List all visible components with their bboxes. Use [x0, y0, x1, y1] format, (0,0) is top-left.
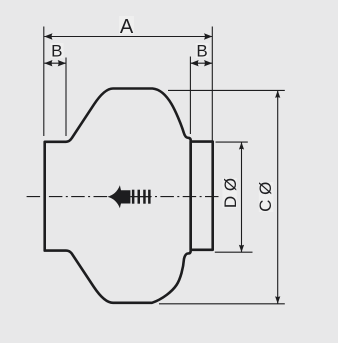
- arrowhead D bottom: [239, 245, 244, 253]
- extension line C bottom: [159, 303, 285, 305]
- extension line D top: [216, 141, 248, 143]
- svg-text:B: B: [51, 41, 62, 60]
- arrowhead B-left left: [44, 60, 52, 66]
- label B-left halo: [51, 43, 64, 58]
- arrowhead C top: [275, 90, 280, 98]
- dimension A line: [44, 36, 212, 38]
- label B-right halo: [196, 43, 209, 58]
- airflow hatch bar 4: [148, 190, 151, 204]
- airflow hatch bar 1: [132, 190, 135, 204]
- arrowhead C bottom: [275, 296, 280, 304]
- arrowhead A right: [204, 33, 212, 39]
- centerline (dash-dot axis): [27, 196, 219, 198]
- label A halo: [119, 16, 134, 34]
- svg-text:C Ø: C Ø: [256, 182, 275, 212]
- extension line right (A/B datum): [211, 27, 213, 142]
- airflow symbol axis link: [130, 196, 151, 198]
- arrowhead D top: [239, 142, 244, 150]
- svg-text:A: A: [120, 16, 134, 38]
- extension line left flange step: [65, 58, 67, 137]
- label C-diameter halo: [259, 182, 274, 212]
- extension line D bottom: [215, 251, 253, 253]
- extension line left (A/B datum): [43, 27, 45, 137]
- dimension B right line: [190, 62, 212, 64]
- dimension B left line: [44, 62, 66, 64]
- extension line right spigot start: [189, 57, 191, 135]
- arrowhead B-left right: [58, 60, 66, 66]
- svg-text:D Ø: D Ø: [221, 178, 240, 208]
- arrowhead B-right left: [190, 60, 198, 66]
- fan body outline: [45, 89, 191, 303]
- dimension C line: [277, 90, 279, 303]
- airflow hatch bar 3: [143, 190, 146, 204]
- outlet spigot: [191, 142, 213, 250]
- extension line C top: [168, 89, 285, 91]
- label D-diameter halo: [222, 178, 237, 208]
- airflow hatch bar 2: [138, 190, 141, 204]
- arrowhead B-right right: [204, 60, 212, 66]
- svg-text:B: B: [196, 41, 207, 60]
- airflow arrow symbol: [107, 185, 130, 208]
- dimension D line: [241, 142, 243, 252]
- arrowhead A left: [44, 33, 52, 39]
